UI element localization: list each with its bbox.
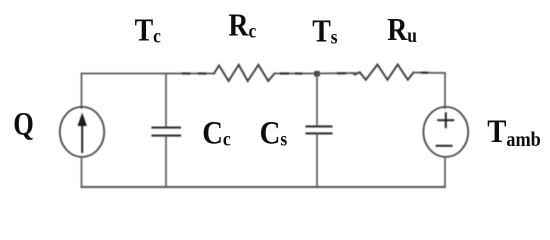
wire top rail: node Ts to resistor Ru	[317, 72, 360, 75]
voltage source plus sign	[438, 113, 453, 127]
svg-text:Ts: Ts	[312, 14, 337, 49]
node Ts junction	[314, 71, 320, 76]
current source arrow	[78, 113, 87, 153]
svg-text:Rc: Rc	[228, 8, 256, 43]
wire dash mark on rail Ts-Ru	[338, 72, 345, 74]
wire top rail: current source to node Tc	[82, 73, 167, 75]
wire bottom rail	[82, 186, 446, 188]
capacitor C_s bottom lead	[316, 134, 318, 187]
capacitor C_c bottom lead	[165, 137, 167, 187]
capacitor C_c plates	[153, 128, 181, 136]
svg-text:Tc: Tc	[135, 13, 161, 48]
svg-text:Tamb: Tamb	[487, 112, 541, 151]
capacitor C_s top lead	[316, 74, 318, 126]
svg-text:Ru: Ru	[387, 12, 417, 47]
svg-text:Cs: Cs	[260, 114, 287, 151]
wire right rail lower: voltage source to bottom rail	[444, 157, 446, 187]
wire dash mark on rail Ru-corner	[422, 72, 427, 74]
wire dash marks on rail Tc-Rc	[183, 72, 205, 74]
wire top rail: node Tc to resistor Rc (with darker dashes)	[166, 73, 214, 75]
wire right rail upper: corner down to voltage source	[444, 73, 446, 108]
capacitor C_c top lead	[165, 74, 167, 127]
wire left rail lower: current source to bottom rail	[81, 157, 83, 187]
svg-text:Cc: Cc	[202, 114, 230, 151]
wire top rail: Ru to top-right corner	[414, 72, 446, 75]
wire top rail: Rc to node Ts	[275, 73, 318, 75]
wire dash marks on rail Rc-Ts	[281, 72, 301, 74]
resistor R_c	[214, 65, 275, 81]
current source Q circle	[60, 107, 104, 157]
svg-text:Q: Q	[13, 106, 34, 142]
resistor R_u	[360, 65, 414, 80]
wire wiggle notch before Ru	[352, 72, 359, 75]
capacitor C_s plates	[307, 126, 332, 133]
voltage source minus sign	[437, 145, 452, 147]
wire left rail upper: corner down to current source	[81, 74, 83, 109]
voltage source T_amb circle	[423, 107, 468, 157]
